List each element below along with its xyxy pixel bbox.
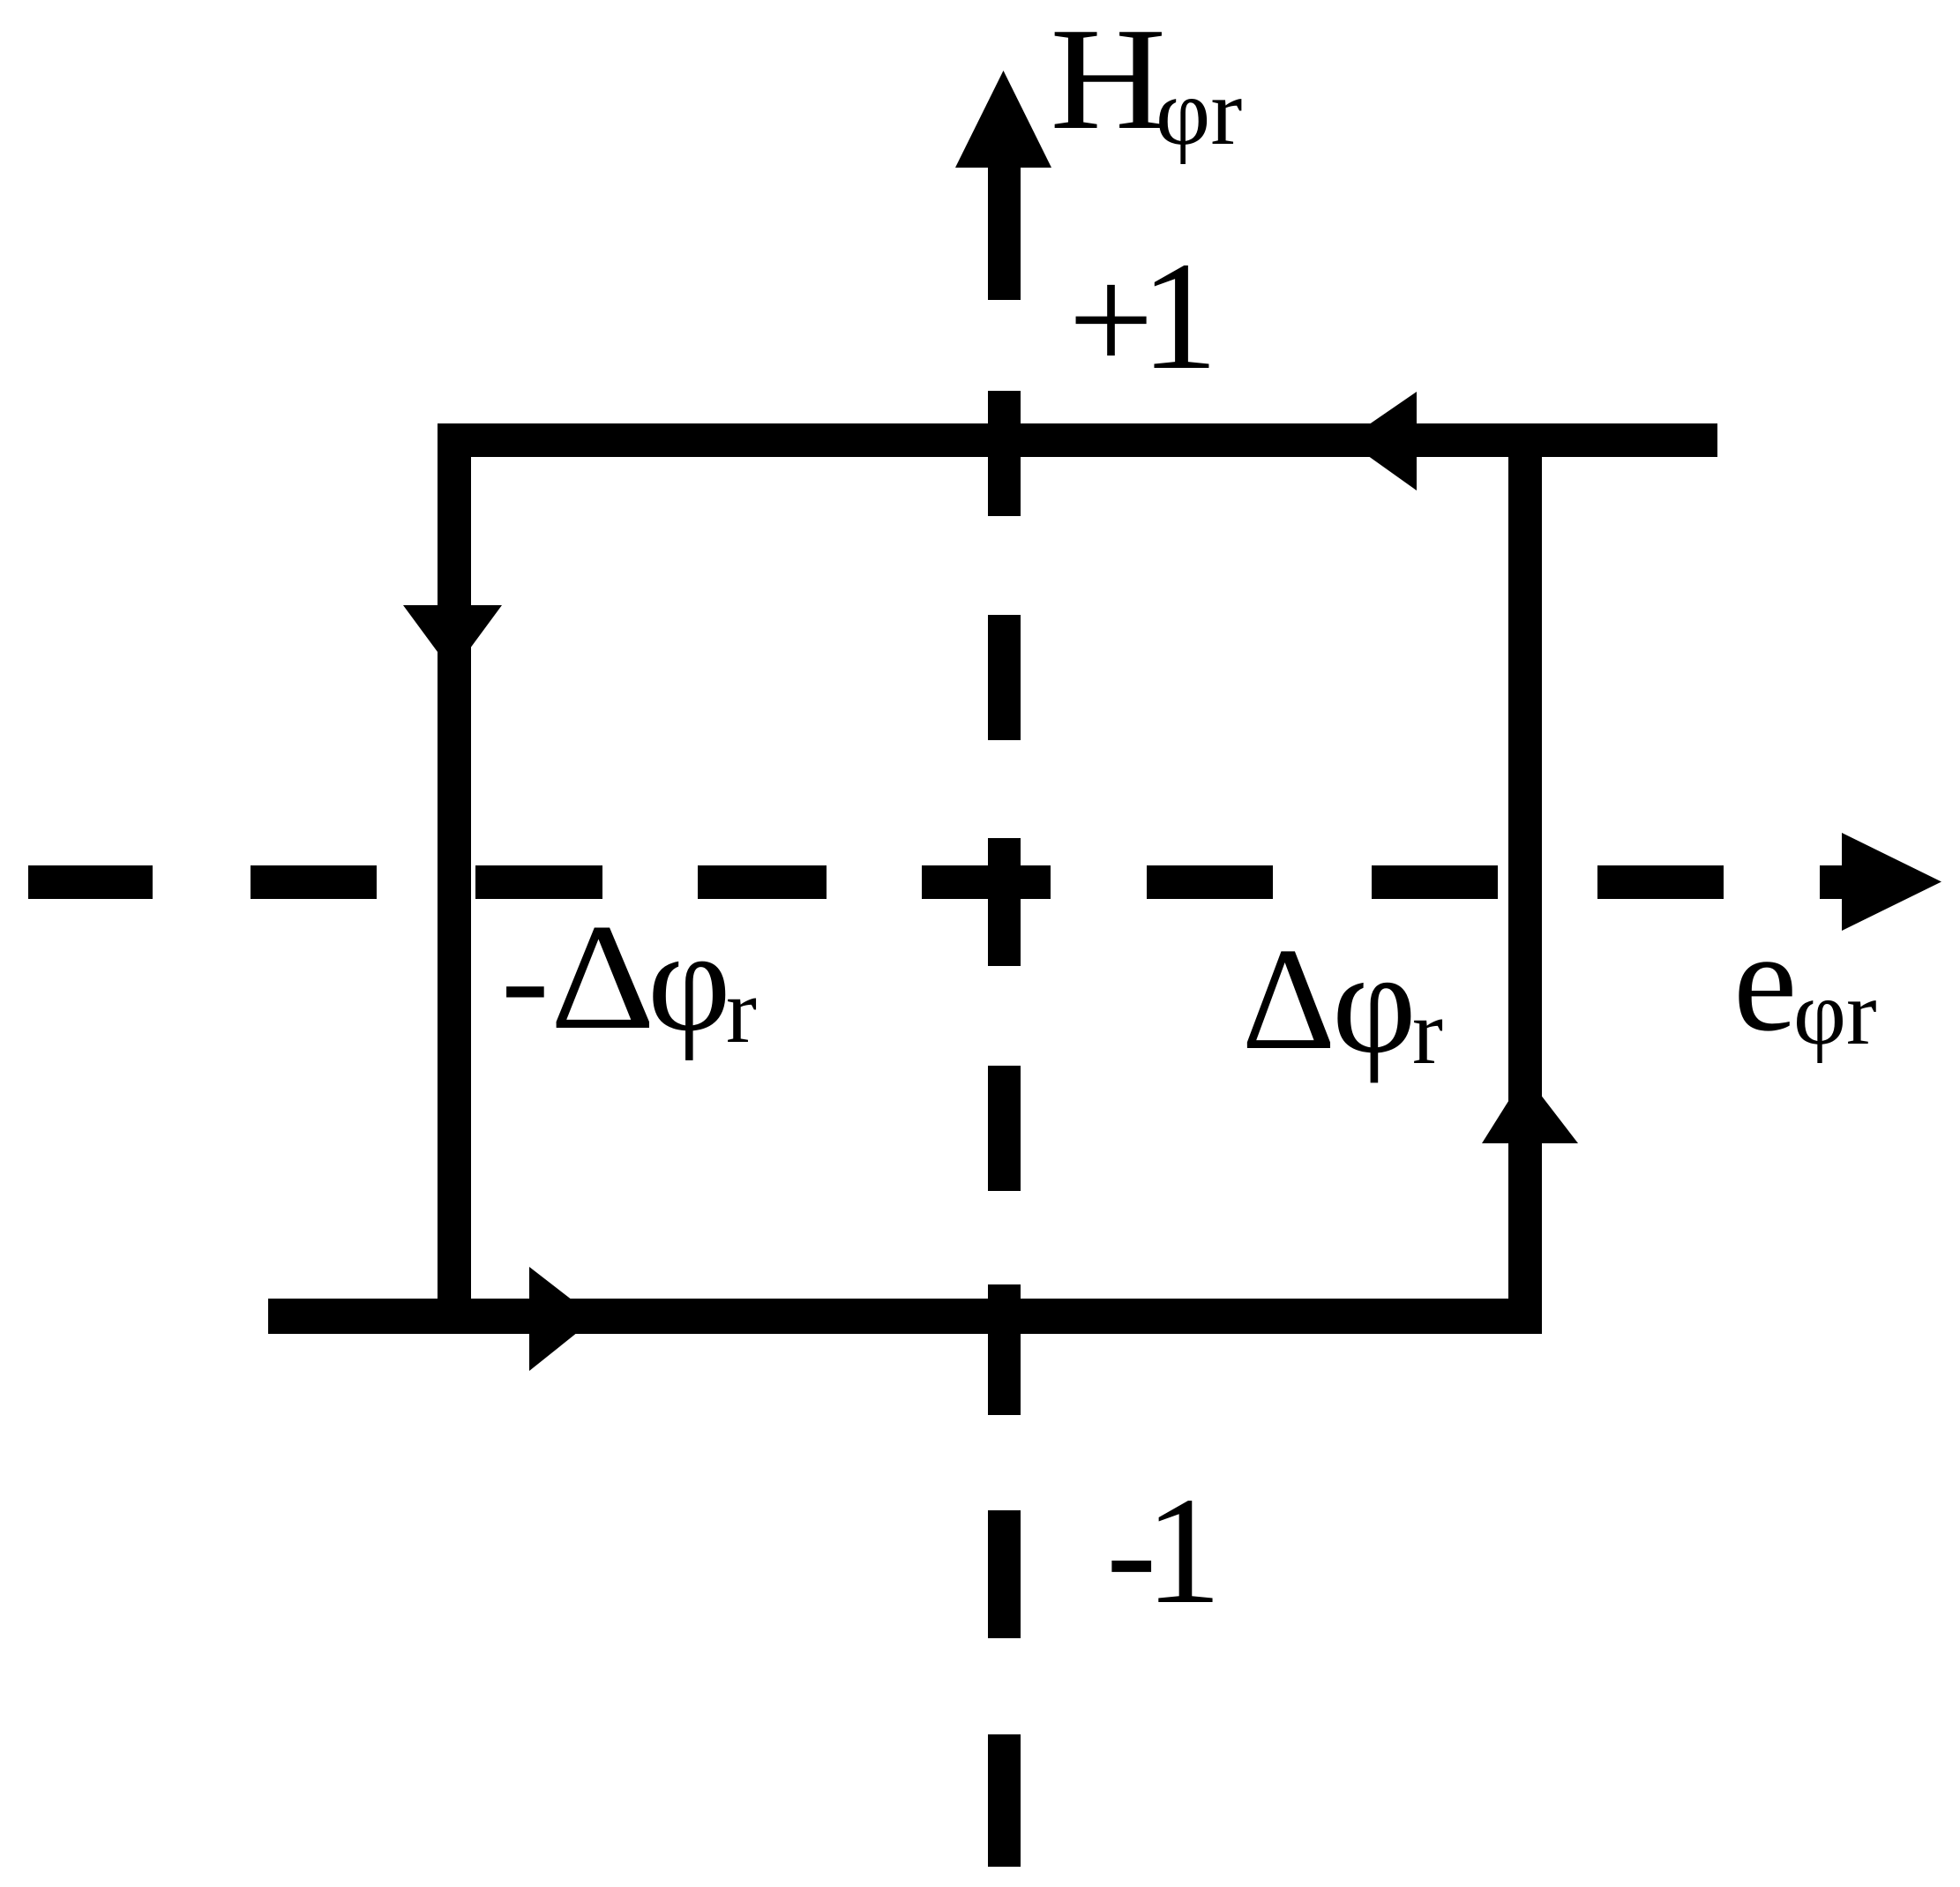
e axis dash stub bbox=[1820, 865, 1842, 899]
svg-text:1: 1 bbox=[1141, 230, 1218, 402]
svg-text:r: r bbox=[726, 959, 757, 1062]
e axis dash 8 bbox=[1597, 865, 1724, 899]
H axis dash 4 bbox=[988, 1066, 1021, 1191]
H axis arrow shaft bbox=[988, 166, 1021, 300]
e axis dash 3 bbox=[475, 865, 602, 899]
svg-text:φ: φ bbox=[647, 902, 731, 1061]
e axis dash 2 bbox=[251, 865, 377, 899]
hysteresis loop right vertical line bbox=[1508, 423, 1542, 1334]
hysteresis loop bottom line bbox=[268, 1299, 1542, 1334]
e axis dash 6 bbox=[1147, 865, 1273, 899]
e axis dash 4 bbox=[698, 865, 827, 899]
svg-text:e: e bbox=[1733, 902, 1797, 1061]
arrowhead left on top line bbox=[1346, 392, 1417, 490]
svg-text:r: r bbox=[1412, 980, 1443, 1083]
svg-text:1: 1 bbox=[1145, 1465, 1222, 1636]
H axis dash 2 bbox=[988, 615, 1021, 740]
e axis dash 5 (origin) bbox=[922, 865, 1051, 899]
svg-text:φr: φr bbox=[1793, 962, 1877, 1064]
H axis dash 3 (origin) bbox=[988, 838, 1021, 966]
H axis dash 5 bbox=[988, 1284, 1021, 1415]
e axis dash 7 bbox=[1372, 865, 1498, 899]
svg-text:Δ: Δ bbox=[550, 892, 655, 1060]
e axis dash 1 bbox=[28, 865, 153, 899]
svg-text:Δ: Δ bbox=[1242, 917, 1336, 1080]
H axis arrowhead (up) bbox=[955, 71, 1051, 168]
svg-text:-: - bbox=[501, 898, 550, 1058]
arrowhead right on bottom line bbox=[529, 1267, 595, 1371]
hysteresis loop left vertical line bbox=[438, 423, 471, 1334]
arrowhead down on left line bbox=[403, 605, 502, 672]
H axis dash 7 bbox=[988, 1734, 1021, 1867]
svg-text:H: H bbox=[1050, 0, 1166, 160]
e axis arrowhead (right) bbox=[1842, 833, 1941, 931]
H axis dash 6 bbox=[988, 1510, 1021, 1638]
svg-text:φr: φr bbox=[1156, 60, 1242, 165]
svg-text:φ: φ bbox=[1332, 921, 1417, 1083]
arrowhead up on right line bbox=[1482, 1075, 1578, 1143]
hysteresis loop top line bbox=[438, 423, 1717, 457]
H axis dash 1 bbox=[988, 391, 1021, 516]
